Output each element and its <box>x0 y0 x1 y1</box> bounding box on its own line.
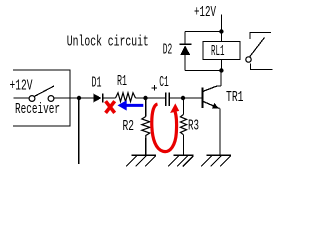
svg-text:Receiver: Receiver <box>15 101 60 118</box>
svg-text:R1: R1 <box>117 73 127 90</box>
node B junction dot <box>143 96 147 100</box>
wire +12V down <box>220 15 222 32</box>
svg-text:D2: D2 <box>163 42 173 59</box>
C1 plus label <box>151 85 157 91</box>
diode D1 <box>93 94 102 103</box>
wire TR1 collector up <box>220 71 222 87</box>
wire top rail <box>185 31 221 33</box>
wire D2 branch <box>184 32 186 71</box>
wire switch lead-in <box>14 97 30 99</box>
svg-text:D1: D1 <box>92 75 102 92</box>
annotation red loop arrow <box>152 103 179 151</box>
svg-text:R2: R2 <box>123 118 135 135</box>
wire RL1 bottom lead <box>220 60 222 71</box>
annotation blue arrow <box>118 100 144 110</box>
svg-text:RL1: RL1 <box>211 43 225 60</box>
svg-text:R3: R3 <box>188 118 199 135</box>
resistor R3 <box>180 98 186 155</box>
ground under TR1 emitter <box>201 155 231 166</box>
svg-text:+12V: +12V <box>10 78 33 95</box>
svg-text:Unlock circuit: Unlock circuit <box>67 34 149 51</box>
wire C1 to base <box>169 97 202 99</box>
annotation red X <box>106 101 115 113</box>
wire drop from node A <box>78 98 80 164</box>
ground under R2 <box>126 155 156 166</box>
relay contact <box>246 33 273 70</box>
diode D2 <box>180 44 192 55</box>
receiver box <box>13 70 70 126</box>
wire bottom rail <box>185 70 221 72</box>
node D junction dot <box>219 29 223 33</box>
wire R1 to C1 <box>136 97 166 99</box>
node C junction dot <box>181 96 185 100</box>
wire D1 to R1 <box>103 97 116 99</box>
node A junction dot <box>77 96 81 100</box>
wire switch to D1 <box>54 97 94 99</box>
relay coil RL1 box <box>203 42 240 60</box>
ground under R3 <box>168 155 194 166</box>
wire RL1 top lead <box>220 32 222 42</box>
wire TR1 emitter down <box>219 109 221 156</box>
capacitor C1 <box>166 92 170 106</box>
svg-text:C1: C1 <box>159 74 169 91</box>
resistor R1 <box>116 93 136 102</box>
transistor TR1 <box>203 86 221 109</box>
resistor R2 <box>142 98 150 155</box>
svg-text:TR1: TR1 <box>226 89 244 106</box>
svg-text:+12V: +12V <box>194 4 216 21</box>
switch SW1 <box>29 86 54 101</box>
node E junction dot <box>219 68 223 72</box>
